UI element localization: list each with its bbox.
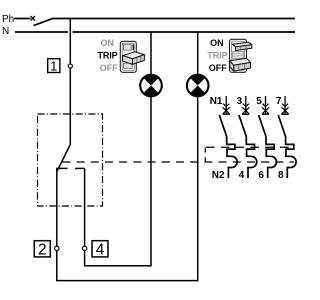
svg-text:N: N — [2, 26, 9, 37]
svg-text:4: 4 — [96, 241, 105, 258]
svg-text:3: 3 — [237, 96, 243, 107]
svg-text:ON: ON — [100, 38, 114, 48]
svg-text:2: 2 — [38, 241, 47, 258]
svg-text:Ph: Ph — [2, 14, 14, 25]
svg-text:OFF: OFF — [209, 63, 227, 73]
svg-text:7: 7 — [276, 96, 282, 107]
svg-text:8: 8 — [278, 170, 284, 181]
svg-text:ON: ON — [210, 38, 224, 48]
svg-text:N1: N1 — [210, 96, 223, 107]
svg-text:TRIP: TRIP — [97, 50, 117, 60]
svg-text:6: 6 — [258, 170, 264, 181]
svg-text:N2: N2 — [212, 170, 225, 181]
svg-text:OFF: OFF — [100, 63, 118, 73]
svg-text:1: 1 — [50, 58, 57, 73]
svg-text:4: 4 — [239, 170, 245, 181]
svg-text:TRIP: TRIP — [207, 50, 227, 60]
svg-text:5: 5 — [256, 96, 262, 107]
